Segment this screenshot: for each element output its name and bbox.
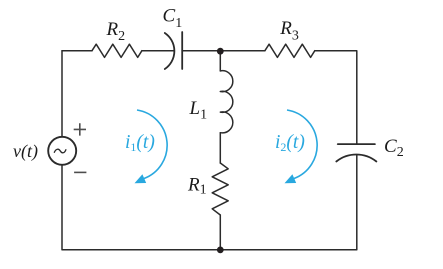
voltage source v(t) circle xyxy=(48,137,76,165)
svg-text:R2: R2 xyxy=(106,19,126,44)
wire inductor to R1 xyxy=(219,133,221,163)
minus sign xyxy=(74,171,86,173)
mesh current i1(t) arrow xyxy=(137,110,167,179)
svg-text:R3: R3 xyxy=(279,18,299,44)
svg-text:R1: R1 xyxy=(187,174,207,197)
svg-text:i1(t): i1(t) xyxy=(125,132,155,154)
wire R1 to bottom node xyxy=(219,215,221,250)
plus sign xyxy=(74,123,86,135)
node A junction dot xyxy=(217,48,224,55)
mesh current i2(t) arrow xyxy=(287,110,317,179)
voltage source tilde xyxy=(54,149,66,153)
svg-text:v(t): v(t) xyxy=(13,141,38,162)
wire node A down to inductor xyxy=(219,51,221,71)
svg-text:i2(t): i2(t) xyxy=(275,132,305,154)
wire top-left segment xyxy=(62,50,92,52)
resistor R1 xyxy=(212,163,228,215)
wire C2 to bottom-right corner xyxy=(220,155,356,250)
svg-text:C1: C1 xyxy=(163,6,183,32)
capacitor C1 curved plate xyxy=(165,33,175,69)
resistor R3 xyxy=(265,44,315,57)
capacitor C1 straight plate xyxy=(181,32,183,69)
mesh current i2(t) label xyxy=(275,132,305,154)
inductor L1 xyxy=(220,71,233,133)
wire R3 to top-right corner xyxy=(315,51,357,144)
bottom node junction dot xyxy=(217,247,224,254)
wire bottom-left segment xyxy=(62,165,220,250)
svg-text:C2: C2 xyxy=(384,136,404,160)
resistor R2 xyxy=(92,44,142,57)
capacitor C2 curved plate xyxy=(336,154,376,161)
mesh current i1(t) label xyxy=(125,132,155,154)
wire source to top-left corner xyxy=(61,51,63,137)
wire C1 to node A xyxy=(182,50,220,52)
svg-text:L1: L1 xyxy=(189,98,208,123)
wire node A to R3 xyxy=(220,50,265,52)
capacitor C2 straight plate xyxy=(338,143,375,145)
wire R2 to C1 xyxy=(142,50,174,52)
